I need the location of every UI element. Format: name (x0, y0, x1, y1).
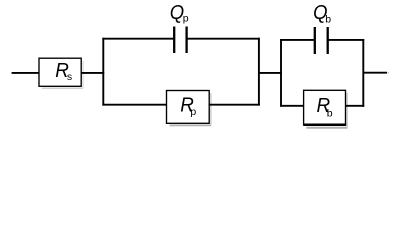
wire loop2 bottom-right segment (346, 105, 365, 107)
wire loop2 bottom-left segment (280, 105, 304, 107)
resistor Rp (167, 91, 212, 126)
wire right lead (363, 72, 387, 74)
wire loop2 top-right segment (328, 39, 365, 41)
svg-text:p: p (190, 106, 196, 118)
wire loop1 top-left segment (102, 38, 174, 40)
wire Rs to node A (81, 72, 104, 74)
wire loop2 top-left segment (280, 39, 315, 41)
capacitor Qb (313, 1, 331, 54)
wire loop1 bottom-right segment (209, 104, 260, 106)
resistor Rb (303, 90, 347, 127)
svg-text:s: s (67, 71, 72, 83)
node B : loop1 right vertical (258, 38, 260, 106)
node A : loop1 left vertical (102, 38, 104, 106)
svg-text:b: b (325, 14, 331, 26)
wire loop1 bottom-left segment (102, 104, 167, 106)
svg-text:b: b (327, 107, 333, 119)
wire loop1 top-right segment (187, 38, 260, 40)
wire left lead (12, 72, 40, 74)
wire between loops (259, 72, 282, 74)
node D : loop2 right vertical (362, 39, 364, 107)
wire end nub (387, 72, 390, 74)
resistor Rs (39, 58, 83, 88)
capacitor Qp (170, 1, 189, 53)
node C : loop2 left vertical (280, 39, 282, 107)
svg-text:p: p (183, 12, 189, 24)
